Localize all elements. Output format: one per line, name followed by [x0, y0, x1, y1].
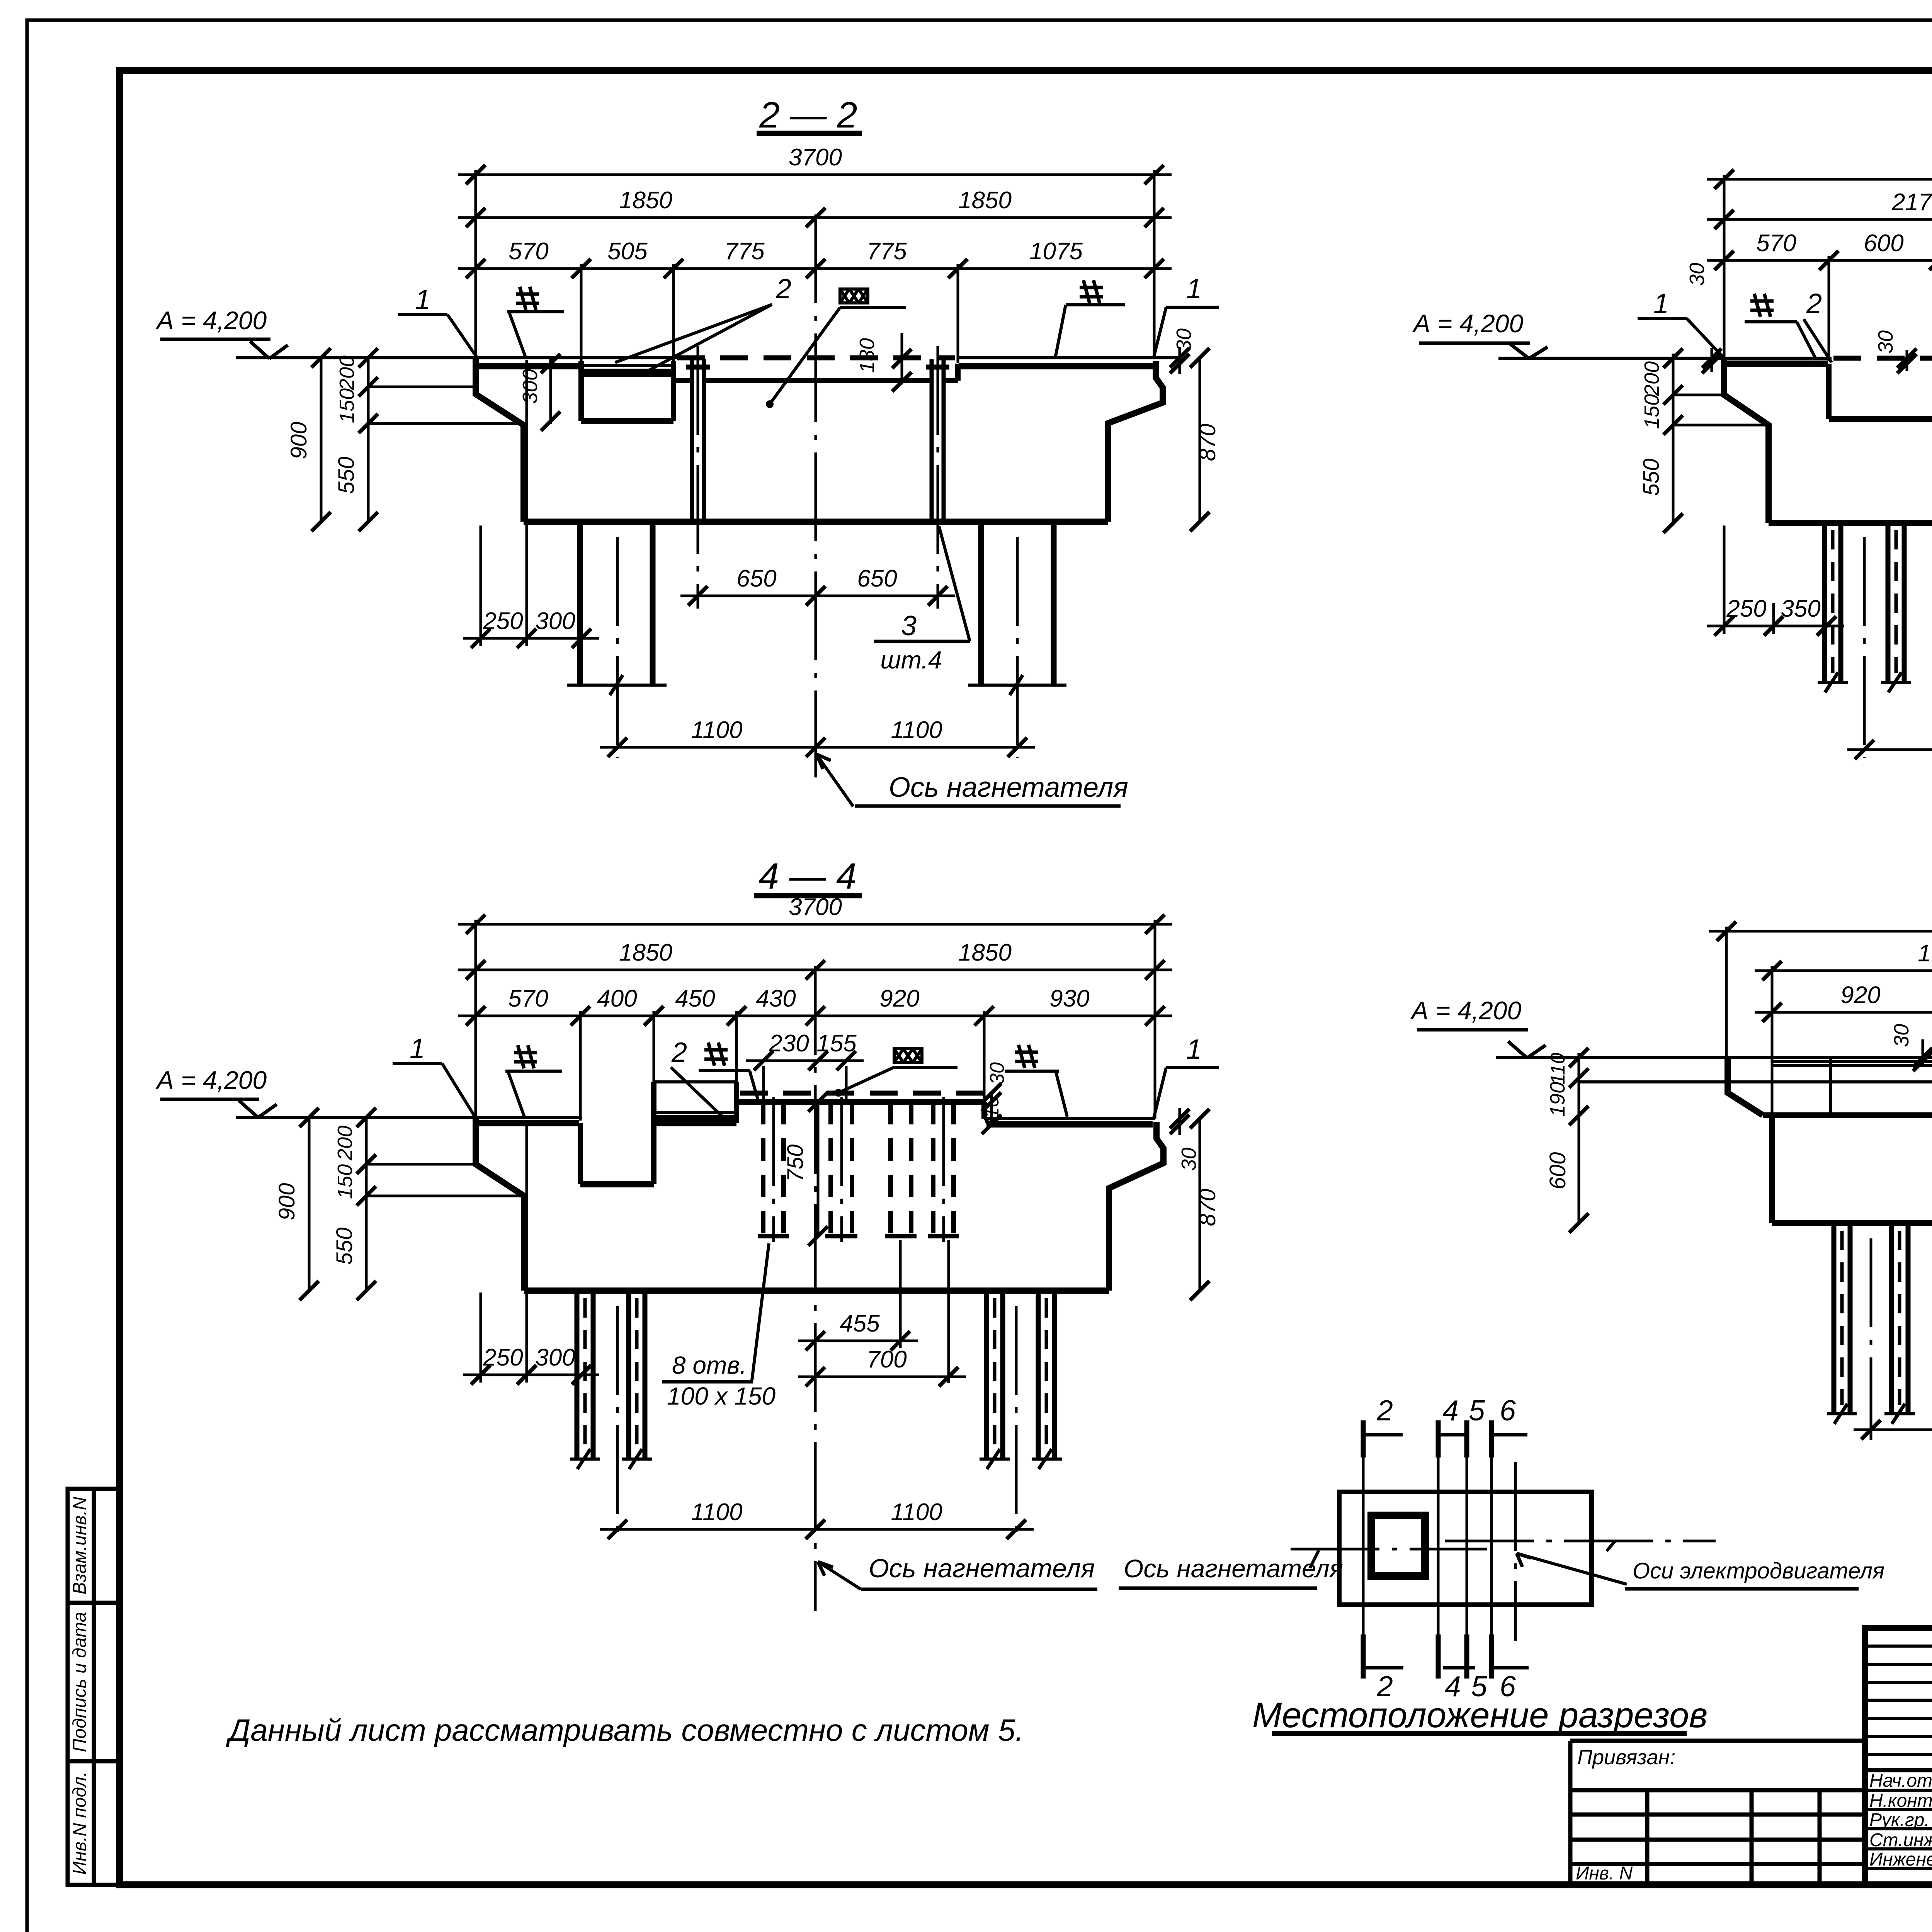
- section 4-4 outline left: [476, 1117, 524, 1291]
- section 6-6 main body left edge: [1769, 1115, 1775, 1223]
- svg-text:570: 570: [509, 238, 548, 265]
- svg-text:150: 150: [1640, 394, 1663, 429]
- section 2-2 dim row 1850+1850: [458, 216, 1172, 219]
- section 2-2 pit depth dim 300: [549, 359, 552, 424]
- section 4-4 plate box: [734, 1082, 739, 1123]
- svg-text:920: 920: [879, 985, 919, 1012]
- section 2-2 dim 250+300: [463, 637, 599, 640]
- svg-text:775: 775: [724, 238, 765, 265]
- section 4-4 dim 700: [798, 1376, 966, 1378]
- svg-text:А = 4,200: А = 4,200: [155, 306, 267, 335]
- section 6-6 dim row 920/360/640/640/360/280: [1755, 1011, 1932, 1014]
- svg-text:Оси электродвигателя: Оси электродвигателя: [1633, 1558, 1884, 1583]
- section 2-2 dim 650+650: [680, 595, 955, 597]
- section 2-2 mesh symbol left: [520, 287, 526, 310]
- svg-text:Ось нагнетателя: Ось нагнетателя: [869, 1554, 1095, 1583]
- svg-text:650: 650: [736, 565, 776, 592]
- svg-text:Нач.отд.: Нач.отд.: [1869, 1770, 1932, 1791]
- plan pump axis: [1291, 1548, 1487, 1551]
- section 2-2 ground line: [236, 356, 677, 359]
- svg-text:Ось нагнетателя: Ось нагнетателя: [1124, 1554, 1343, 1583]
- svg-text:230: 230: [769, 1030, 809, 1057]
- svg-text:870: 870: [1195, 424, 1220, 461]
- section 4-4 vertical dims 900 left: [308, 1117, 311, 1291]
- section 5-5 dim 250+350: [1707, 625, 1844, 628]
- svg-text:3: 3: [901, 611, 917, 641]
- svg-text:900: 900: [274, 1183, 299, 1221]
- svg-text:2: 2: [671, 1037, 687, 1068]
- section 4-4 dim 1100+1100: [600, 1528, 1034, 1531]
- svg-text:550: 550: [1639, 459, 1664, 496]
- section 4-4 deep pit: [578, 1123, 583, 1184]
- svg-text:1100: 1100: [691, 717, 742, 743]
- section 2-2 dim 30 right: [1179, 347, 1181, 374]
- svg-text:920: 920: [1840, 982, 1880, 1009]
- section 5-5 left pile pair: [1822, 523, 1827, 681]
- section 4-4 axis label Ось нагнетателя: [818, 1562, 861, 1589]
- section 2-2 anchor bolt right: [930, 359, 934, 522]
- svg-text:1: 1: [1186, 1034, 1202, 1065]
- svg-text:130: 130: [855, 338, 879, 373]
- section 4-4 middle plinth top: [736, 1099, 984, 1105]
- section 5-5 dim 1420+780: [1847, 748, 1932, 751]
- section 5-5 outline left: [1724, 358, 1769, 523]
- section 4-4 dim row 1850+1850: [458, 969, 1172, 971]
- left margin strip boxes: [68, 1489, 120, 1885]
- section 5-5 ground line: [1498, 357, 1832, 360]
- svg-text:200: 200: [1640, 361, 1663, 396]
- svg-text:250: 250: [483, 1344, 523, 1371]
- section 4-4 concrete top left: [478, 1120, 579, 1126]
- section 6-6 dim 30: [1922, 1039, 1924, 1067]
- section 4-4 outline right: [1109, 1122, 1163, 1291]
- section 5-5 concrete top left: [1726, 361, 1828, 367]
- plan motor horizontal axis: [1445, 1540, 1716, 1543]
- section 4-4 mesh symbol right: [1019, 1045, 1025, 1068]
- section 6-6 dim row 3700: [1709, 930, 1932, 933]
- section 6-6 bottom line: [1772, 1220, 1932, 1226]
- section 5-5 dim row 3700: [1707, 178, 1932, 181]
- plan vertical motor axis: [1514, 1462, 1517, 1641]
- svg-text:650: 650: [857, 565, 897, 592]
- svg-text:Ст.инж.: Ст.инж.: [1869, 1830, 1932, 1850]
- svg-text:Подпись и дата: Подпись и дата: [70, 1612, 90, 1752]
- section 2-2 grout symbol: [840, 289, 868, 303]
- svg-text:1850: 1850: [958, 187, 1012, 214]
- section 6-6 vertical dims left 110 190 600: [1578, 1053, 1580, 1225]
- svg-text:400: 400: [597, 985, 637, 1012]
- section 2-2 center axis: [815, 214, 817, 777]
- svg-text:505: 505: [607, 238, 648, 265]
- plan outline: [1339, 1492, 1592, 1605]
- svg-text:1850: 1850: [958, 939, 1012, 966]
- svg-text:8 отв.: 8 отв.: [672, 1351, 747, 1379]
- section 4-4 concrete top right: [984, 1117, 1155, 1120]
- svg-text:1100: 1100: [891, 717, 942, 743]
- svg-text:2170: 2170: [1891, 189, 1932, 216]
- section 2-2 dim row 570/505/775/775/1075: [458, 267, 1172, 270]
- svg-text:750: 750: [783, 1145, 808, 1182]
- svg-text:550: 550: [332, 1228, 357, 1265]
- svg-text:600: 600: [1864, 230, 1903, 257]
- plan pit opening square: [1371, 1515, 1425, 1576]
- svg-text:600: 600: [1545, 1152, 1570, 1190]
- plan section line 4: [1436, 1420, 1441, 1458]
- svg-text:1850: 1850: [619, 939, 672, 966]
- section 6-6 ground line: [1496, 1056, 1932, 1059]
- svg-text:Рук.гр.: Рук.гр.: [1869, 1810, 1930, 1830]
- svg-text:250: 250: [483, 608, 523, 634]
- svg-text:190: 190: [1546, 1082, 1569, 1117]
- section 4-4 middle dashed floor line: [740, 1091, 987, 1096]
- svg-text:300: 300: [535, 1344, 575, 1371]
- svg-text:200: 200: [333, 1126, 357, 1161]
- section 4-4 mesh symbol mid: [708, 1043, 714, 1066]
- plan section line 2: [1361, 1420, 1366, 1458]
- svg-text:Местоположение разрезов: Местоположение разрезов: [1252, 1696, 1708, 1735]
- section 4-4 extension lines: [474, 920, 477, 1117]
- title block small table bottom left: [1570, 1788, 1865, 1793]
- section 4-4 right pile pair: [984, 1291, 989, 1458]
- svg-text:2: 2: [1806, 288, 1822, 319]
- svg-text:1100: 1100: [891, 1499, 942, 1526]
- section 4-4 grout symbol: [894, 1049, 922, 1063]
- svg-text:350: 350: [1781, 595, 1820, 622]
- svg-text:250: 250: [1726, 595, 1766, 622]
- section 5-5 mesh symbol: [1754, 294, 1760, 317]
- svg-text:1: 1: [1653, 288, 1669, 319]
- section 2-2 vertical dims 150 200 550: [367, 358, 370, 522]
- svg-text:430: 430: [756, 985, 796, 1012]
- svg-text:2: 2: [776, 274, 791, 304]
- section 2-2 dim row 3700: [458, 173, 1172, 176]
- section 4-4 vertical dims 150 200 550: [365, 1117, 368, 1291]
- svg-text:30: 30: [986, 1062, 1009, 1085]
- svg-text:150: 150: [333, 1164, 357, 1199]
- svg-text:150: 150: [335, 388, 359, 423]
- svg-text:Н.контр.: Н.контр.: [1869, 1791, 1932, 1811]
- section 5-5 vertical dims left 150 200 550: [1672, 354, 1675, 526]
- section 2-2 recess pit with plate 2: [578, 361, 584, 421]
- svg-text:30: 30: [1172, 328, 1196, 352]
- svg-text:200: 200: [335, 355, 359, 391]
- section 2-2 outline left: [476, 358, 524, 522]
- section 4-4 mesh symbol left: [518, 1045, 524, 1068]
- title block signature rows: [1865, 1789, 1932, 1792]
- plan section line 6: [1489, 1420, 1494, 1458]
- svg-text:110: 110: [1547, 1053, 1569, 1085]
- svg-text:570: 570: [508, 985, 548, 1012]
- svg-text:300: 300: [519, 369, 542, 404]
- section 2-2 floor dashed line: [677, 355, 955, 361]
- svg-text:30: 30: [1177, 1148, 1201, 1171]
- svg-text:4: 4: [1442, 1394, 1459, 1427]
- section 4-4 dim row 570/400/450/430/920/930: [458, 1015, 1172, 1017]
- section 2-2 extension lines: [474, 170, 477, 358]
- section 4-4 dim row 3700: [458, 923, 1172, 926]
- svg-text:30: 30: [1685, 263, 1709, 286]
- svg-text:1920: 1920: [1918, 940, 1932, 967]
- svg-text:1075: 1075: [1029, 238, 1083, 265]
- section 2-2 left pile: [577, 522, 583, 684]
- svg-text:30: 30: [1874, 330, 1897, 354]
- svg-text:Ось нагнетателя: Ось нагнетателя: [889, 772, 1128, 803]
- svg-text:Данный лист рассматривать совм: Данный лист рассматривать совместно с ли…: [226, 1713, 1024, 1747]
- svg-text:4 — 4: 4 — 4: [759, 856, 856, 897]
- svg-text:100 x 150: 100 x 150: [667, 1382, 776, 1410]
- section 4-4 vertical dim 870 right: [1199, 1119, 1201, 1291]
- svg-text:700: 700: [867, 1346, 906, 1373]
- svg-text:1850: 1850: [619, 187, 672, 214]
- svg-text:А = 4,200: А = 4,200: [155, 1066, 267, 1094]
- section 2-2 axis label Ось нагнетателя: [816, 754, 853, 806]
- section 4-4 bottom line: [524, 1287, 1109, 1294]
- svg-text:Привязан:: Привязан:: [1577, 1746, 1675, 1769]
- svg-text:2: 2: [1376, 1394, 1393, 1427]
- svg-text:775: 775: [867, 238, 907, 265]
- section 6-6 left ledge: [1728, 1058, 1763, 1115]
- section 5-5 dim 30 pit: [1906, 350, 1908, 371]
- svg-text:550: 550: [334, 457, 359, 494]
- svg-text:А = 4,200: А = 4,200: [1410, 996, 1522, 1025]
- svg-text:1: 1: [1186, 274, 1202, 304]
- svg-text:3700: 3700: [789, 144, 842, 171]
- section 4-4 dims 110 30 right of plinth: [990, 1093, 993, 1125]
- svg-text:6: 6: [1500, 1394, 1516, 1427]
- section 5-5 bottom line: [1769, 520, 1932, 526]
- section 2-2 concrete top right: [959, 363, 1153, 369]
- svg-text:870: 870: [1195, 1189, 1220, 1226]
- svg-text:900: 900: [286, 422, 311, 459]
- section 2-2 vertical dim 870 right: [1199, 358, 1201, 522]
- section 4-4 dim 30 right edge: [1179, 1108, 1181, 1135]
- section 6-6 middle concrete top: [1772, 1060, 1932, 1063]
- section 5-5 dim row 570/600/1000: [1707, 259, 1932, 262]
- section 4-4 dim 230+155: [746, 1060, 864, 1062]
- section 2-2 dim 1100+1100: [600, 746, 1035, 749]
- section 2-2 middle concrete top: [673, 378, 692, 383]
- section 5-5 recess pit: [1826, 364, 1832, 419]
- svg-text:930: 930: [1049, 985, 1089, 1012]
- svg-text:2 — 2: 2 — 2: [759, 95, 857, 136]
- svg-text:455: 455: [840, 1310, 880, 1337]
- svg-text:570: 570: [1756, 230, 1796, 257]
- section 4-4 dim 455: [798, 1340, 918, 1342]
- section 4-4 center axis: [814, 966, 817, 1611]
- svg-text:1: 1: [415, 284, 430, 315]
- section 2-2 vertical dims 900 left: [320, 358, 323, 522]
- section 5-5 dim row 2170+1530: [1707, 218, 1932, 221]
- svg-text:110: 110: [981, 1096, 1003, 1128]
- section 2-2 mesh symbol right: [1083, 280, 1090, 303]
- section 4-4 dim 250+300: [463, 1374, 599, 1376]
- section 2-2 dim 130: [901, 333, 903, 384]
- section 4-4 dim 750: [817, 1102, 820, 1236]
- section 6-6 dim 1420+780: [1854, 1429, 1932, 1431]
- title block privyazan box: [1568, 1741, 1573, 1885]
- svg-text:шт.4: шт.4: [880, 646, 942, 674]
- svg-text:Инв. N: Инв. N: [1576, 1863, 1633, 1884]
- svg-text:300: 300: [535, 608, 575, 634]
- section 4-4 ground line: [236, 1116, 582, 1119]
- section 2-2 anchor bolt left: [690, 359, 694, 522]
- section 2-2 concrete top left: [478, 363, 580, 369]
- section 4-4 step right: [981, 1102, 987, 1119]
- svg-text:Инженер: Инженер: [1869, 1849, 1932, 1870]
- section 2-2 bottom line: [524, 519, 1108, 525]
- section 2-2 right pile: [978, 522, 984, 684]
- section 5-5 extension lines: [1723, 175, 1726, 358]
- svg-text:5: 5: [1469, 1394, 1485, 1427]
- section 5-5 dim 30 left: [1711, 348, 1713, 372]
- section 2-2 outline right: [1108, 361, 1163, 522]
- section 6-6 extension lines: [1725, 927, 1728, 1058]
- plan section line 5: [1464, 1420, 1469, 1458]
- title block thin rows upper left: [1865, 1645, 1932, 1648]
- section 4-4 left pile pair: [575, 1291, 580, 1458]
- section 4-4 openings dashed: [761, 1102, 765, 1236]
- svg-text:1100: 1100: [691, 1499, 742, 1526]
- svg-text:Инв.N подл.: Инв.N подл.: [70, 1771, 90, 1874]
- svg-text:Взам.инв.N: Взам.инв.N: [70, 1497, 90, 1594]
- svg-text:155: 155: [816, 1030, 857, 1057]
- svg-text:30: 30: [1890, 1024, 1913, 1047]
- svg-text:450: 450: [675, 985, 715, 1012]
- svg-text:3700: 3700: [789, 894, 842, 920]
- title block outer box: [1865, 1628, 1932, 1885]
- svg-text:1: 1: [410, 1033, 425, 1064]
- svg-text:А = 4,200: А = 4,200: [1412, 309, 1524, 338]
- section 6-6 dim row 1920+1280: [1755, 969, 1932, 972]
- section 5-5 floor dashed line: [1833, 356, 1932, 361]
- section 6-6 left pile pair: [1832, 1223, 1837, 1413]
